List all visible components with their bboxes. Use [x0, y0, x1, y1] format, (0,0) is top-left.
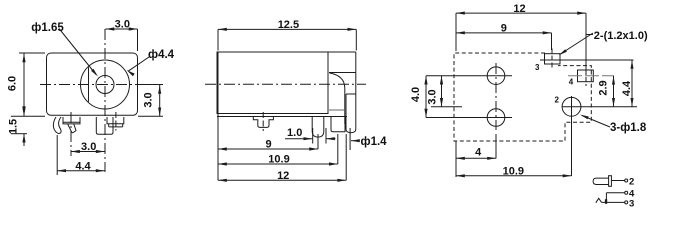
- svg-text:2.9: 2.9: [598, 80, 610, 95]
- svg-text:2: 2: [629, 177, 634, 188]
- center pin side view (U bottom): [346, 94, 356, 133]
- bushing flat chord: [88, 67, 90, 102]
- hook pin extension line: [56, 135, 58, 175]
- svg-text:3: 3: [535, 63, 540, 72]
- dim 3.0 (top view left): [441, 76, 443, 107]
- svg-text:3.0: 3.0: [143, 92, 155, 107]
- mount hole 2: [487, 109, 505, 127]
- wire to terminal 4: [606, 192, 624, 194]
- dim 10.9 (top view bottom): [456, 175, 572, 177]
- left pin crimp tab: [68, 124, 76, 133]
- svg-text:4: 4: [475, 147, 482, 159]
- hole column centerline: [495, 63, 497, 130]
- hole column ext to dim 4: [495, 134, 497, 159]
- dim 9 (middle): [317, 134, 319, 149]
- svg-text:3-ф1.8: 3-ф1.8: [610, 122, 647, 134]
- dim 1.0 (outside arrows): [312, 128, 314, 144]
- schematic plug barrel symbol: [593, 178, 609, 184]
- svg-text:2-(1.2x1.0): 2-(1.2x1.0): [594, 30, 648, 42]
- 3.0 reference line: [431, 106, 462, 108]
- seating base line: [217, 116, 347, 118]
- barrel shoulder arc: [330, 73, 345, 124]
- svg-text:4: 4: [569, 78, 574, 87]
- svg-text:1.0: 1.0: [287, 127, 302, 139]
- dim 6.0 left side: [19, 52, 45, 54]
- middle view: side body outline: [217, 52, 328, 114]
- inner barrel line: [329, 109, 345, 111]
- svg-text:12: 12: [277, 170, 289, 182]
- svg-text:9: 9: [501, 23, 507, 35]
- top right block: [328, 51, 356, 53]
- left pin hook wire: [53, 117, 61, 133]
- svg-text:3.0: 3.0: [427, 89, 439, 104]
- barrel face line: [346, 93, 356, 95]
- hole2 horizontal centerline: [426, 117, 512, 119]
- shallow pin centerline: [115, 112, 117, 131]
- svg-text:12: 12: [513, 3, 525, 15]
- horizontal centerline left view: [40, 84, 144, 86]
- terminal circle 2: [625, 179, 628, 182]
- pad 4 (solder tab): [578, 70, 594, 82]
- svg-text:ф4.4: ф4.4: [148, 49, 175, 61]
- dim 3.0 bottom (left view): [71, 151, 105, 153]
- dim 4 (top view bottom): [455, 141, 457, 177]
- pad4 row line extending to 2.9 dim: [568, 75, 614, 77]
- vertical centerline left view: [104, 29, 106, 172]
- terminal circle 4: [625, 191, 628, 194]
- dim 12 (middle): [345, 134, 347, 180]
- left pin body: [63, 117, 80, 124]
- dim 4.4 bottom (left view): [57, 170, 104, 172]
- inner hole circle &#934;1.65: [96, 76, 114, 94]
- svg-text:4.0: 4.0: [410, 87, 422, 102]
- center terminal pin (front): [96, 117, 113, 134]
- svg-text:3.0: 3.0: [81, 141, 96, 153]
- left view: front face body outline: [47, 53, 138, 115]
- dim 12 (top view): [455, 13, 457, 51]
- horizontal centerline middle view: [205, 83, 366, 85]
- wire to terminal 2: [611, 180, 624, 182]
- left pin centerline: [70, 112, 72, 156]
- svg-text:10.9: 10.9: [268, 154, 289, 166]
- dim 3.0 right side of left view: [140, 84, 163, 86]
- bottom block pin: [331, 117, 345, 132]
- svg-text:2: 2: [554, 96, 559, 105]
- svg-text:3: 3: [629, 198, 634, 209]
- pin 3 side view (U bottom): [312, 117, 324, 138]
- svg-text:ф1.4: ф1.4: [361, 136, 388, 148]
- svg-text:1.5: 1.5: [8, 119, 20, 134]
- dim 1.5 left side (outside arrows): [11, 115, 45, 117]
- dashed body outline (top view): [454, 53, 591, 141]
- hole1 horizontal centerline: [426, 75, 512, 77]
- right block top edge / inner line: [329, 72, 356, 74]
- dim 9 (top view): [551, 33, 553, 50]
- svg-text:4.4: 4.4: [75, 160, 91, 172]
- pad3 row line extending to 4.4 dim: [540, 59, 634, 61]
- outer bushing circle &#934;4.4: [81, 60, 130, 109]
- spring contact symbol: [596, 198, 602, 203]
- dim 4.0 (top view left): [425, 76, 427, 118]
- terminal circle 3: [625, 201, 628, 204]
- pad 3 (solder tab): [545, 54, 561, 64]
- mount hole 1: [487, 67, 505, 85]
- dim 3.0 top (left view): [137, 29, 139, 51]
- svg-text:6.0: 6.0: [7, 76, 19, 91]
- dim 10.9 (middle): [337, 134, 339, 164]
- hat pin (side view small): [253, 117, 273, 128]
- svg-text:10.9: 10.9: [503, 165, 524, 177]
- svg-text:9: 9: [266, 139, 272, 151]
- center pin hole circle 2: [562, 97, 581, 116]
- dim 12.5 (middle top): [217, 29, 219, 50]
- dim 4.4 (top view right): [631, 60, 633, 107]
- wire to terminal 3: [602, 201, 625, 203]
- dim 2.9 (top view right): [613, 76, 615, 107]
- side contact pin (front, shallow): [107, 117, 124, 124]
- svg-text:4.4: 4.4: [621, 80, 633, 96]
- label &#934;1.4: [349, 128, 351, 150]
- svg-text:3.0: 3.0: [115, 18, 130, 30]
- svg-text:12.5: 12.5: [278, 19, 299, 31]
- contact junction mark: [605, 199, 607, 204]
